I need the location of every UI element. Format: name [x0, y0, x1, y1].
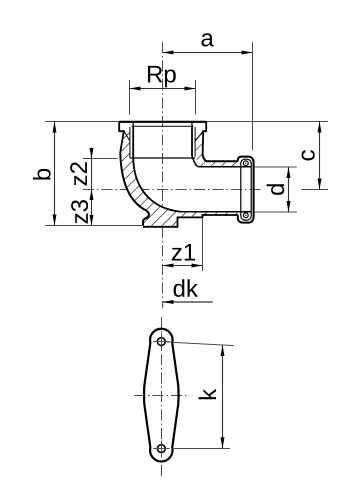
dim b: bottom extension line: [45, 225, 143, 227]
inner elbow curve: [133, 158, 180, 212]
right collar: [203, 121, 207, 155]
label d: [267, 184, 285, 195]
dim k: bottom extension: [172, 448, 230, 450]
dim a: dimension line: [163, 52, 253, 54]
bottom view horizontal centerline: [134, 395, 189, 397]
label Rp: [148, 66, 176, 87]
dim k: dimension line: [222, 345, 224, 448]
outer elbow curve: [120, 152, 149, 226]
z2/z3 dimension line: [91, 148, 93, 226]
dim b: top extension line: [45, 121, 118, 123]
bottom hole: [157, 445, 165, 453]
right chamfer line: [195, 132, 203, 141]
bore edge ticks: [132, 122, 134, 126]
rim chamfer line: [132, 125, 194, 127]
label dk: [174, 279, 198, 297]
dim c: dimension line: [319, 122, 321, 190]
label z1: [172, 244, 195, 261]
vertical centerline (top socket axis): [162, 42, 164, 308]
label a: [201, 33, 213, 46]
dim c: top extension line: [207, 121, 328, 123]
bottom view vertical centerline: [161, 317, 163, 477]
tube outer top with fillet: [203, 155, 238, 161]
bore wall left: [132, 126, 134, 158]
o-ring bottom: [243, 213, 248, 218]
label z2: [70, 162, 87, 185]
dim a: right extension line: [252, 42, 254, 151]
label c: [302, 150, 315, 160]
label k: [199, 389, 216, 399]
label z3: [71, 200, 88, 223]
o-ring top: [243, 161, 248, 166]
dim dk: dimension line: [163, 301, 213, 303]
foot bottom: [143, 215, 238, 227]
thread bottom line: [130, 157, 195, 159]
dim k: top slanted extension: [167, 342, 234, 346]
left collar: [119, 121, 124, 152]
dim b: dimension line: [54, 122, 56, 226]
thread thin line left: [129, 127, 131, 158]
lens body outline: [144, 329, 179, 462]
dim Rp: dimension line: [130, 88, 196, 90]
press bead outer: [238, 157, 254, 223]
tube bore top: [192, 156, 251, 167]
dim z1: right extension line: [202, 218, 204, 271]
fitting top face: [119, 121, 206, 123]
dim d: extension lines: [254, 166, 297, 168]
thread thin line right: [194, 127, 196, 157]
dim z1: dimension line: [163, 265, 203, 267]
label b: [33, 169, 51, 180]
dim c: bottom extension line: [302, 189, 329, 191]
tube bore bottom: [180, 211, 251, 213]
hatch region right wall + top tube wall: [195, 130, 238, 167]
dim Rp: extension lines: [129, 80, 131, 115]
dim d: dimension line: [288, 167, 290, 212]
horizontal centerline (right socket axis): [83, 189, 262, 191]
dim z2: top extension line: [83, 158, 118, 160]
left chamfer line: [124, 132, 130, 141]
press bead inner contour: [241, 159, 251, 220]
bore wall right: [191, 126, 193, 156]
hatch region left wall + elbow band + foot + bottom tube wall: [120, 130, 238, 227]
top hole: [157, 338, 165, 346]
